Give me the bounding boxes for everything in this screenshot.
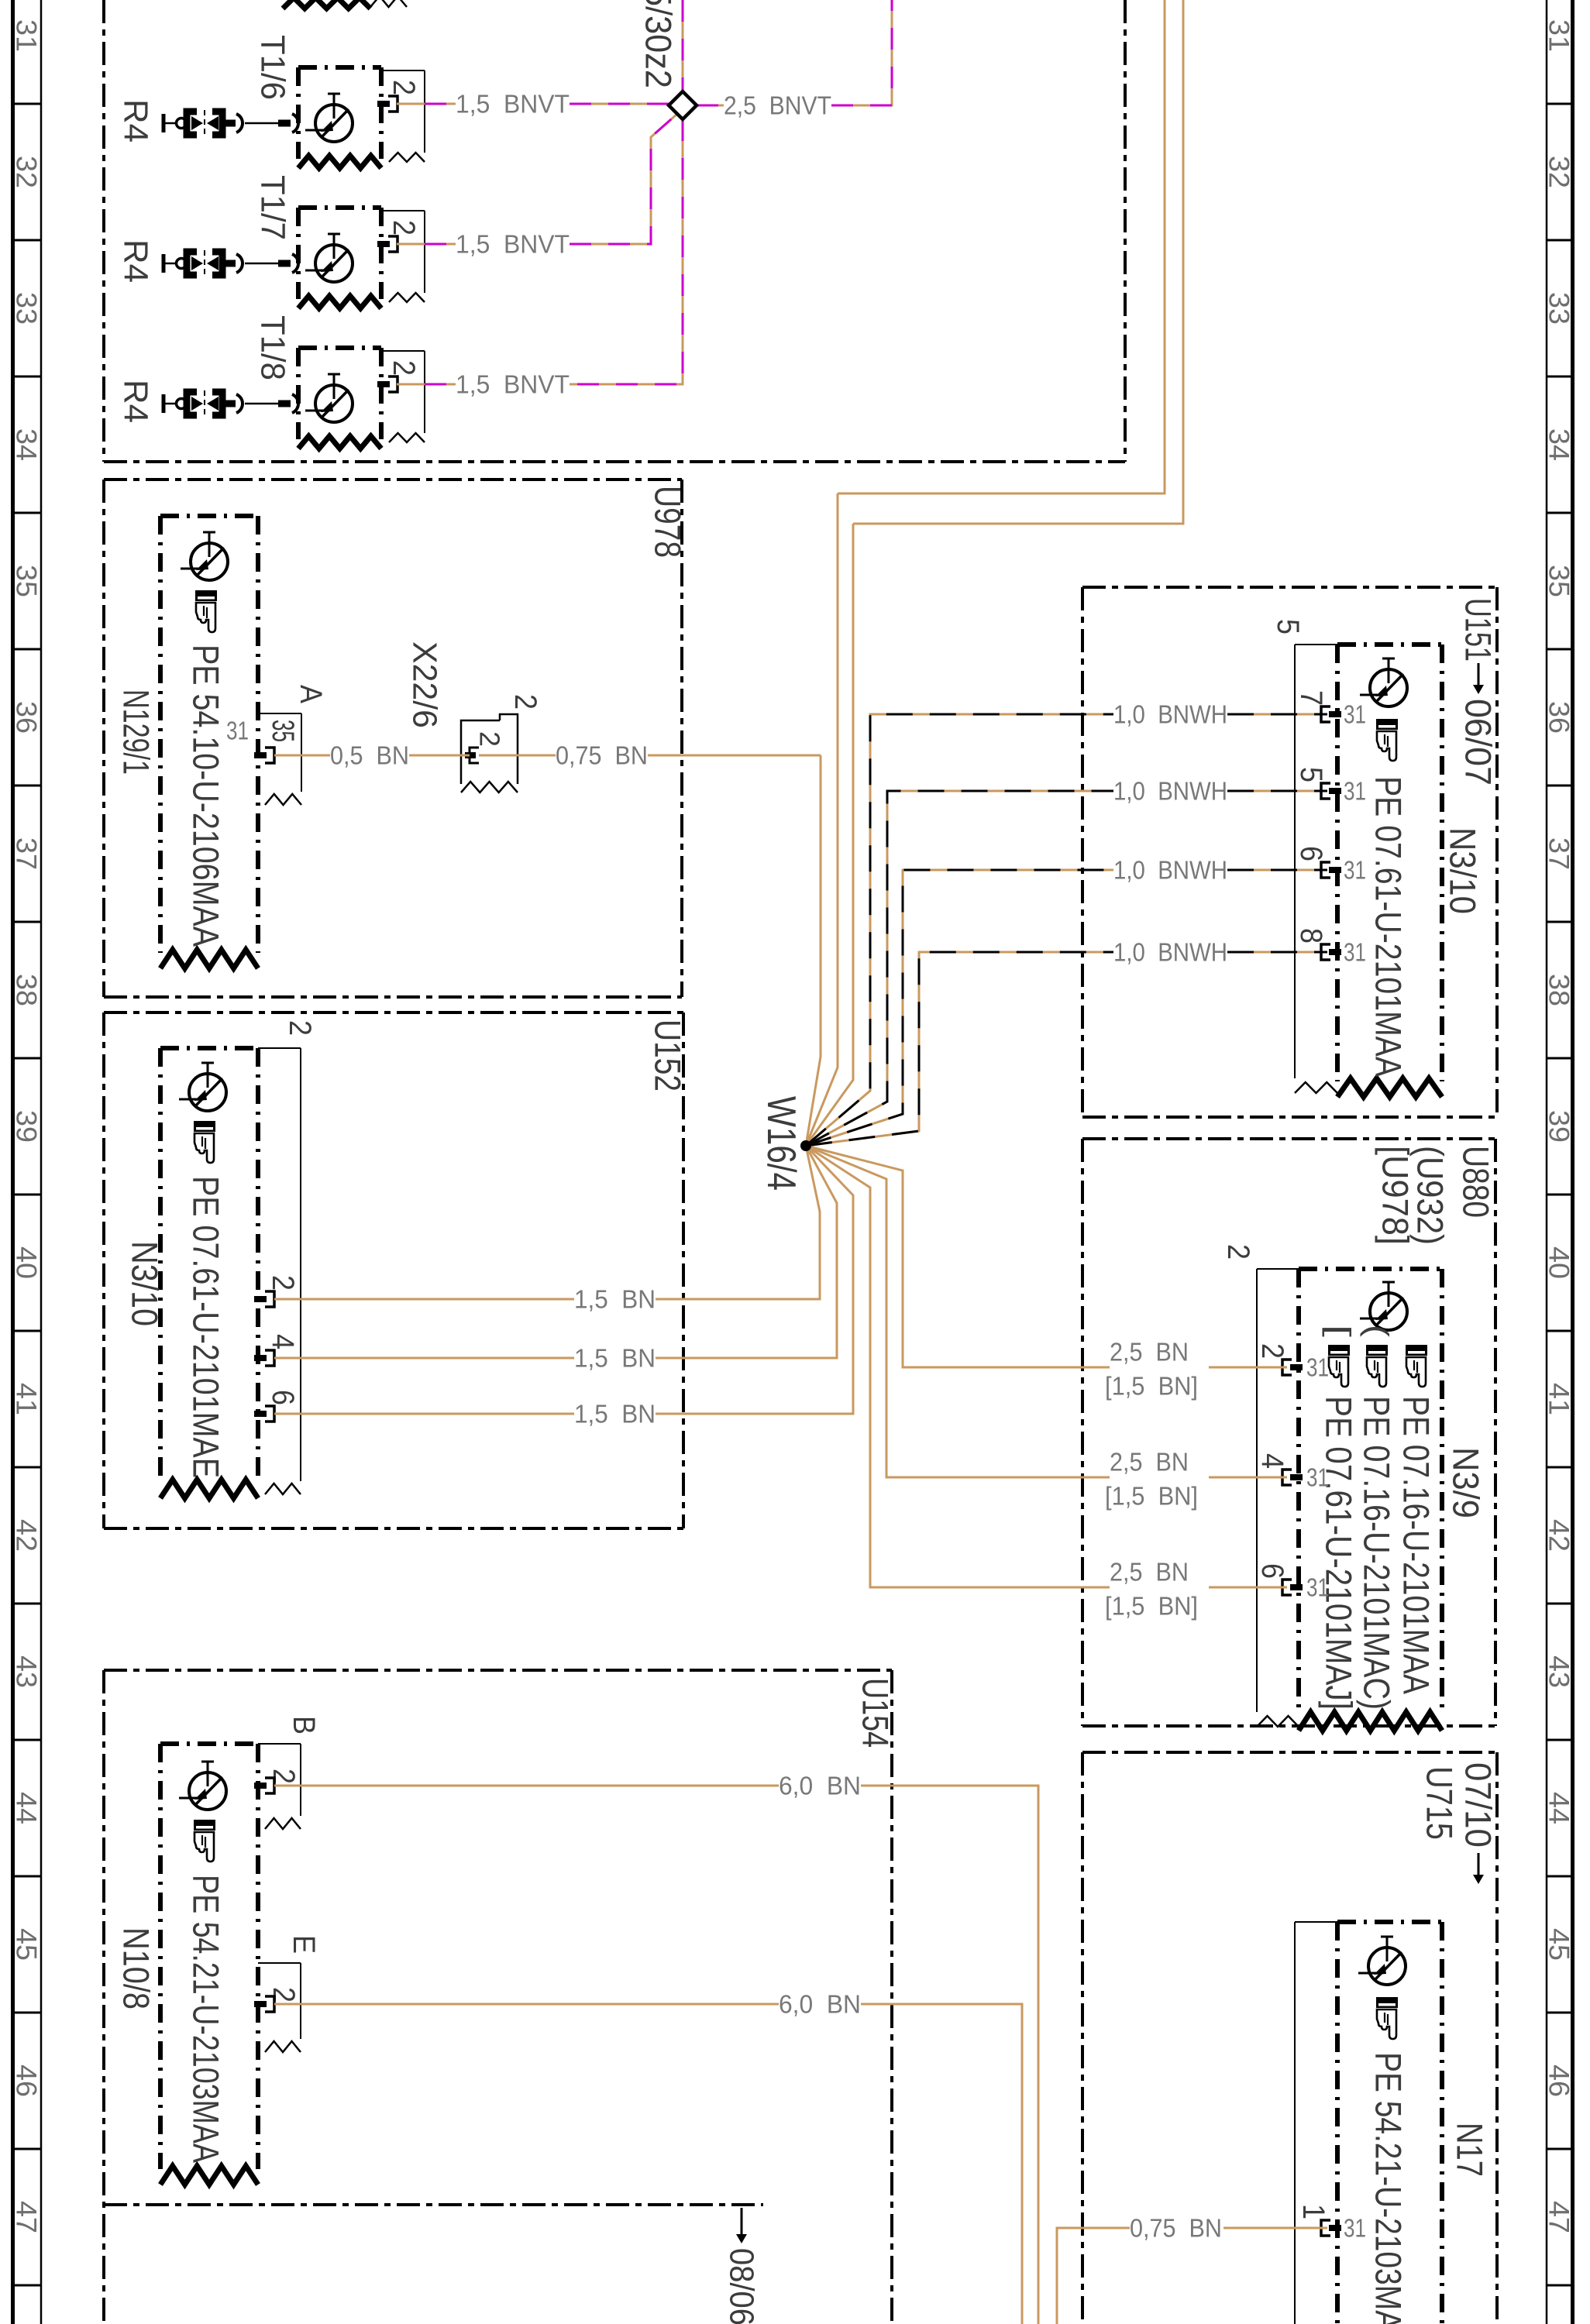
svg-text:U978: U978 xyxy=(648,486,689,558)
svg-text:U152: U152 xyxy=(648,1019,689,1092)
svg-text:41: 41 xyxy=(1544,1383,1575,1415)
svg-text:1,5 BN: 1,5 BN xyxy=(574,1400,656,1428)
svg-text:36: 36 xyxy=(11,701,43,734)
svg-text:34: 34 xyxy=(1544,428,1575,461)
svg-text:[1,5 BN]: [1,5 BN] xyxy=(1105,1592,1198,1621)
svg-text:1,5 BNVT: 1,5 BNVT xyxy=(456,90,570,119)
svg-text:35: 35 xyxy=(266,720,300,742)
svg-text:1: 1 xyxy=(1296,2204,1330,2219)
svg-text:31: 31 xyxy=(1306,1463,1329,1492)
svg-text:40: 40 xyxy=(1544,1246,1575,1279)
svg-text:47: 47 xyxy=(1544,2201,1575,2233)
svg-text:2: 2 xyxy=(283,1020,317,1036)
svg-text:39: 39 xyxy=(1544,1110,1575,1143)
svg-text:PE 07.61-U-2101MAA: PE 07.61-U-2101MAA xyxy=(1368,776,1409,1078)
svg-text:[1,5 BN]: [1,5 BN] xyxy=(1105,1482,1198,1511)
svg-text:1,0 BNWH: 1,0 BNWH xyxy=(1113,777,1227,806)
svg-text:2,5 BN: 2,5 BN xyxy=(1110,1448,1189,1477)
svg-text:PE 54.21-U-2103MAA: PE 54.21-U-2103MAA xyxy=(186,1875,227,2164)
svg-text:2: 2 xyxy=(387,220,421,235)
svg-text:B: B xyxy=(287,1716,321,1734)
svg-text:5: 5 xyxy=(1294,767,1328,782)
svg-text:41: 41 xyxy=(11,1383,43,1415)
svg-text:1,0 BNWH: 1,0 BNWH xyxy=(1113,938,1227,967)
svg-text:2: 2 xyxy=(508,694,542,710)
svg-text:35: 35 xyxy=(11,565,43,597)
svg-text:N129/1: N129/1 xyxy=(116,689,157,775)
svg-text:46: 46 xyxy=(1544,2064,1575,2097)
svg-text:U880: U880 xyxy=(1456,1146,1497,1218)
svg-text:1,5 BN: 1,5 BN xyxy=(574,1285,656,1314)
svg-text:31: 31 xyxy=(1344,856,1366,885)
svg-text:38: 38 xyxy=(1544,974,1575,1006)
svg-text:39: 39 xyxy=(11,1110,43,1143)
svg-text:R4: R4 xyxy=(117,239,155,283)
svg-text:2,5 BN: 2,5 BN xyxy=(1110,1338,1189,1367)
svg-text:46: 46 xyxy=(11,2064,43,2097)
svg-text:X22/6: X22/6 xyxy=(406,641,444,728)
svg-text:32: 32 xyxy=(11,156,43,188)
svg-text:PE 07.61-U-2101MAJ]: PE 07.61-U-2101MAJ] xyxy=(1319,1396,1360,1710)
svg-text:R4: R4 xyxy=(117,99,155,143)
svg-text:PE 07.16-U-2101MAA: PE 07.16-U-2101MAA xyxy=(1396,1396,1437,1695)
svg-text:31: 31 xyxy=(1544,19,1575,52)
svg-text:1,5 BNVT: 1,5 BNVT xyxy=(456,230,570,259)
svg-text:31: 31 xyxy=(1306,1573,1329,1602)
svg-text:[1,5 BN]: [1,5 BN] xyxy=(1105,1372,1198,1401)
svg-text:U154: U154 xyxy=(855,1678,897,1748)
svg-text:(: ( xyxy=(1360,1325,1394,1338)
svg-text:1,5 BNVT: 1,5 BNVT xyxy=(456,370,570,399)
svg-text:N3/9: N3/9 xyxy=(1446,1447,1487,1518)
svg-text:[U978]: [U978] xyxy=(1375,1146,1416,1245)
svg-text:U715: U715 xyxy=(1420,1766,1461,1840)
svg-text:E: E xyxy=(287,1935,321,1954)
svg-text:PE 07.61-U-2101MAE: PE 07.61-U-2101MAE xyxy=(186,1176,227,1478)
svg-text:07/10: 07/10 xyxy=(1458,1762,1499,1848)
svg-text:31: 31 xyxy=(1344,2214,1366,2243)
svg-text:2: 2 xyxy=(267,1987,301,2003)
svg-text:31: 31 xyxy=(1344,700,1366,729)
svg-text:U151: U151 xyxy=(1458,598,1499,662)
svg-text:N10/8: N10/8 xyxy=(116,1927,157,2009)
svg-text:2: 2 xyxy=(267,1769,301,1784)
svg-text:T1/8: T1/8 xyxy=(254,315,292,380)
svg-text:31: 31 xyxy=(226,717,249,745)
svg-text:43: 43 xyxy=(11,1655,43,1688)
svg-text:2: 2 xyxy=(1221,1244,1255,1260)
svg-text:7: 7 xyxy=(1294,690,1328,706)
svg-text:33: 33 xyxy=(1544,292,1575,325)
svg-text:6: 6 xyxy=(1255,1563,1289,1579)
svg-text:6,0 BN: 6,0 BN xyxy=(779,1772,861,1800)
svg-text:A: A xyxy=(294,685,328,703)
svg-text:N3/10: N3/10 xyxy=(125,1241,166,1326)
svg-text:2: 2 xyxy=(1255,1343,1289,1359)
svg-text:6,0 BN: 6,0 BN xyxy=(779,1990,861,2019)
svg-text:6: 6 xyxy=(1294,846,1328,861)
svg-text:0,75 BN: 0,75 BN xyxy=(1130,2214,1222,2243)
svg-text:W16/4: W16/4 xyxy=(759,1096,804,1191)
svg-text:2: 2 xyxy=(474,731,506,747)
svg-text:43: 43 xyxy=(1544,1655,1575,1688)
svg-text:2: 2 xyxy=(387,360,421,376)
svg-text:5: 5 xyxy=(1271,619,1305,634)
svg-text:31: 31 xyxy=(1344,777,1366,806)
svg-text:40: 40 xyxy=(11,1246,43,1279)
svg-text:47: 47 xyxy=(11,2201,43,2233)
svg-text:33: 33 xyxy=(11,292,43,325)
svg-text:T1/7: T1/7 xyxy=(254,175,292,240)
svg-text:2,5 BN: 2,5 BN xyxy=(1110,1558,1189,1587)
svg-text:31: 31 xyxy=(1306,1353,1329,1382)
svg-text:42: 42 xyxy=(11,1519,43,1552)
svg-text:R4: R4 xyxy=(117,380,155,423)
svg-text:45: 45 xyxy=(11,1928,43,1961)
svg-text:37: 37 xyxy=(1544,837,1575,870)
svg-text:37: 37 xyxy=(11,837,43,870)
svg-text:0,5 BN: 0,5 BN xyxy=(330,741,409,770)
svg-text:1,0 BNWH: 1,0 BNWH xyxy=(1113,700,1227,729)
svg-text:44: 44 xyxy=(1544,1792,1575,1824)
svg-text:08/06: 08/06 xyxy=(723,2248,761,2324)
svg-text:0,75 BN: 0,75 BN xyxy=(556,741,648,770)
svg-text:6: 6 xyxy=(266,1390,300,1405)
svg-text:44: 44 xyxy=(11,1792,43,1824)
svg-text:2: 2 xyxy=(387,80,421,95)
svg-text:1,5 BN: 1,5 BN xyxy=(574,1344,656,1373)
svg-text:35: 35 xyxy=(1544,565,1575,597)
svg-text:2,5 BNVT: 2,5 BNVT xyxy=(724,91,831,120)
svg-text:31: 31 xyxy=(1344,938,1366,967)
svg-text:[: [ xyxy=(1322,1325,1356,1337)
svg-text:42: 42 xyxy=(1544,1519,1575,1552)
svg-text:4: 4 xyxy=(1255,1453,1289,1469)
svg-text:38: 38 xyxy=(11,974,43,1006)
svg-text:8: 8 xyxy=(1294,928,1328,944)
svg-text:4: 4 xyxy=(266,1334,300,1349)
svg-text:36: 36 xyxy=(1544,701,1575,734)
svg-text:PE 54.21-U-2103MAA: PE 54.21-U-2103MAA xyxy=(1368,2052,1409,2324)
svg-text:PE 07.16-U-2101MAC): PE 07.16-U-2101MAC) xyxy=(1357,1396,1398,1710)
svg-text:06/07: 06/07 xyxy=(1458,699,1499,786)
svg-text:T1/6: T1/6 xyxy=(254,35,292,100)
svg-text:2: 2 xyxy=(266,1275,300,1291)
svg-text:45: 45 xyxy=(1544,1928,1575,1961)
svg-text:1,0 BNWH: 1,0 BNWH xyxy=(1113,856,1227,885)
svg-text:31: 31 xyxy=(11,19,43,52)
svg-text:N3/10: N3/10 xyxy=(1443,827,1484,914)
svg-text:N17: N17 xyxy=(1450,2123,1491,2177)
svg-text:34: 34 xyxy=(11,428,43,461)
svg-text:32: 32 xyxy=(1544,156,1575,188)
svg-text:5/30z2: 5/30z2 xyxy=(638,0,680,88)
svg-text:PE 54.10-U-2106MAA: PE 54.10-U-2106MAA xyxy=(186,645,227,947)
